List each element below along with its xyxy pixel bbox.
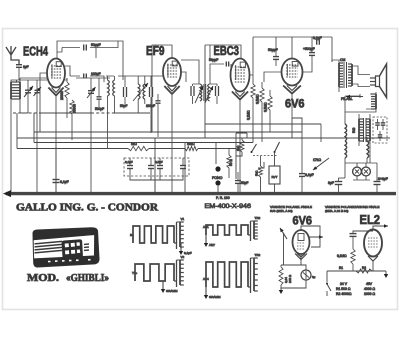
switch S1a: [251, 144, 257, 153]
wire 1kohm bus link: [205, 118, 321, 168]
coil diagram bottom-left: [132, 255, 185, 293]
capacitor 50pF osc grid: [84, 43, 101, 51]
coil diagram bottom-right: [203, 253, 260, 299]
speaker field coil: [345, 92, 376, 112]
wire ECH4 cathode down: [40, 73, 56, 193]
svg-text:100pF: 100pF: [91, 72, 101, 76]
wire EL2 top: [353, 226, 384, 233]
output transformer T3 primary: [332, 60, 343, 92]
resistor 0.5Mohm AF: [264, 90, 273, 132]
tube EF9: [163, 58, 181, 94]
svg-text:24 V: 24 V: [340, 282, 348, 286]
tube EL2 variant: [364, 230, 382, 262]
svg-text:8μF: 8μF: [328, 181, 334, 185]
svg-text:ANT: ANT: [209, 243, 215, 247]
svg-text:+500μF: +500μF: [303, 47, 315, 51]
capacitor 100pF: [70, 72, 104, 82]
svg-text:TR2: TR2: [255, 253, 261, 257]
capacitor EF9 cathode: [156, 94, 161, 137]
IF coil tuned: [133, 76, 148, 113]
resistor diode load vertical: [251, 75, 255, 124]
IF transformer T2: [191, 84, 219, 104]
svg-text:0,5μF: 0,5μF: [155, 160, 163, 164]
svg-text:V2: V2: [181, 255, 185, 259]
wire IF1 to EF9: [118, 45, 172, 76]
radio cabinet MOD GHIBLI: [33, 228, 99, 267]
filter choke lower: [345, 141, 347, 178]
wire EF9 down: [172, 72, 186, 193]
capacitor antenna series: [16, 65, 29, 80]
capacitor 8+8uF filter: [374, 163, 388, 193]
svg-text:0,1μF: 0,1μF: [60, 180, 69, 184]
svg-text:TR2: TR2: [255, 216, 261, 220]
svg-text:540: 540: [352, 127, 356, 133]
switch S1b gang dashed: [253, 155, 277, 157]
wire 6V6 variant bottom: [281, 254, 306, 288]
svg-text:EBC3: EBC3: [214, 44, 240, 58]
mains selector dashed box: [373, 117, 387, 143]
resistor 5kohm: [255, 156, 263, 193]
svg-text:GRAMM: GRAMM: [209, 295, 221, 299]
wire EL2 mid: [327, 261, 386, 274]
wire T2 to EBC3: [181, 45, 241, 84]
dashed box filter caps: [124, 158, 189, 176]
resistor 0.5Mohm grid: [256, 82, 265, 142]
power transformer core: [363, 118, 365, 142]
filter choke right: [367, 137, 369, 163]
capacitor 50pF interstage: [120, 76, 127, 108]
svg-text:45V: 45V: [366, 282, 373, 286]
wire bus horizontals: [20, 112, 150, 114]
svg-text:6V6: 6V6: [285, 97, 305, 111]
label FILAM: [341, 95, 363, 101]
CAV adjuster 17kohm: [313, 158, 329, 170]
tube EBC3: [231, 59, 250, 100]
coil diagram top-right: [203, 216, 260, 247]
resistor 50kohm: [70, 100, 77, 140]
svg-text:17kΩ: 17kΩ: [313, 158, 321, 162]
svg-text:5kΩ: 5kΩ: [255, 170, 259, 176]
switch S1b: [274, 142, 280, 166]
svg-text:0,5MΩ: 0,5MΩ: [256, 94, 260, 104]
svg-text:100pF: 100pF: [146, 104, 155, 108]
svg-text:50 Ω: 50 Ω: [229, 159, 233, 166]
capacitor 8uF filter: [328, 178, 345, 193]
svg-text:6V6: 6V6: [293, 214, 313, 228]
trimmer capacitor CV2: [34, 84, 42, 193]
capacitor 0,1uF AVC left: [53, 146, 69, 193]
svg-text:EM-400-X-946: EM-400-X-946: [205, 203, 252, 210]
svg-text:V1: V1: [181, 217, 185, 221]
svg-text:4000 Ω: 4000 Ω: [364, 287, 375, 291]
svg-text:50pF: 50pF: [120, 104, 127, 108]
power transformer primary: [359, 114, 363, 146]
wire B+ top: [253, 37, 332, 62]
resistor 50ohm: [227, 149, 233, 179]
capacitor block 0,1uF x4: [125, 160, 133, 176]
speaker: [370, 64, 387, 98]
table EL2 values: [336, 282, 375, 296]
resistor cathode 6V6 variant: [279, 265, 292, 285]
svg-text:RVT: RVT: [272, 175, 278, 179]
capacitor 0,1uF top right: [313, 36, 322, 45]
wire verticals to buses: [17, 45, 216, 193]
svg-text:FILAM.: FILAM.: [341, 97, 353, 101]
svg-text:6μ: 6μ: [312, 275, 316, 279]
svg-text:1kΩ: 1kΩ: [131, 142, 137, 146]
svg-text:6V6 (SER. A 04): 6V6 (SER. A 04): [270, 209, 293, 213]
wire top bus B+ left loop: [57, 41, 123, 80]
svg-text:ECH4: ECH4: [23, 45, 48, 59]
arrow input 6V6 variant: [280, 228, 287, 265]
component box RVT: [269, 166, 280, 193]
note variante polariz finale 6V6: [270, 205, 312, 213]
capacitor 100pF interstage: [146, 76, 155, 133]
output transformer T3 core: [343, 62, 345, 88]
resistor 1kohm tone network: [236, 133, 247, 179]
svg-text:EL2: EL2: [360, 212, 381, 227]
wire grid to ECH4: [11, 78, 47, 84]
potentiometer FONO: [212, 166, 223, 193]
svg-text:50μμF: 50μμF: [209, 58, 218, 62]
wire right section verticals: [302, 60, 345, 170]
tube 6V6 output: [282, 59, 303, 94]
svg-text:GRAMM: GRAMM: [166, 289, 178, 293]
capacitor EBC3 grid: [226, 62, 228, 67]
svg-text:1000 Ω: 1000 Ω: [364, 292, 375, 296]
svg-text:500pF: 500pF: [95, 107, 104, 111]
variable capacitor CV3 oscillator: [87, 84, 96, 192]
svg-text:50μμF: 50μμF: [91, 43, 101, 47]
power transformer secondary: [366, 114, 370, 163]
capacitor electrolytic 25uF: [235, 172, 248, 193]
resistor 0,1Mohm EL2: [337, 249, 355, 271]
switch EL2: [326, 271, 331, 296]
tube 6V6 variant: [293, 230, 310, 260]
svg-text:1kΩ: 1kΩ: [236, 145, 240, 151]
trimmer capacitor CV1: [24, 84, 33, 113]
capacitor 0,1uF AF right: [299, 170, 314, 193]
ground arrow 6V6 variant: [279, 288, 283, 294]
svg-text:0,1μF: 0,1μF: [184, 251, 192, 255]
svg-text:10kΩ: 10kΩ: [187, 142, 195, 146]
svg-text:R1 500 Ω: R1 500 Ω: [336, 287, 351, 291]
svg-text:CM: CM: [340, 58, 345, 62]
svg-text:1μF: 1μF: [23, 65, 29, 69]
oscillator coil L2: [108, 76, 115, 149]
svg-text:0,2MΩ: 0,2MΩ: [247, 110, 251, 120]
wire 6V6 connections: [264, 64, 312, 118]
dashed gang line: [13, 112, 150, 114]
tube ECH4: [47, 59, 65, 96]
svg-text:MOD.: MOD.: [27, 272, 59, 284]
svg-text:FONO: FONO: [212, 176, 223, 180]
resistor 20kohm screen vertical text: [60, 78, 69, 118]
capacitor 0,1uF top: [303, 47, 315, 64]
svg-text:240 Ω: 240 Ω: [288, 274, 292, 283]
svg-text:50000: 50000: [73, 104, 77, 113]
svg-text:0,1μF: 0,1μF: [305, 173, 314, 177]
ground arrow EL2: [384, 274, 388, 278]
arrow output 6V6 variant: [301, 226, 323, 247]
svg-text:(SER. A 24 E 34): (SER. A 24 E 34): [325, 209, 348, 213]
svg-text:R2 4000Ω: R2 4000Ω: [336, 292, 352, 296]
wire oscillator top: [65, 66, 114, 88]
svg-text:50μF: 50μF: [241, 181, 248, 185]
rectifier circles: [345, 163, 377, 180]
svg-text:0,5MΩ: 0,5MΩ: [264, 102, 268, 112]
note variante polarizzazione finale EL2: [325, 205, 379, 213]
coil diagram top-left: [130, 217, 192, 255]
wire EBC3 down: [240, 37, 253, 193]
resistor 1kohm decoupling B: [185, 142, 198, 151]
svg-text:20000: 20000: [60, 91, 64, 100]
svg-text:0,1μF: 0,1μF: [125, 160, 133, 164]
antenna: [6, 46, 19, 64]
resistor 1kohm decoupling A: [128, 142, 149, 151]
svg-text:0,1MΩ: 0,1MΩ: [337, 254, 347, 258]
capacitor padder 500pF: [95, 88, 104, 111]
svg-text:«GHIBLI»: «GHIBLI»: [66, 272, 109, 284]
svg-text:0,1μF: 0,1μF: [313, 36, 322, 40]
resistor R2 EL2: [356, 269, 372, 273]
capacitor electrolytic 6V6 variant: [301, 270, 316, 280]
svg-text:P. R. 190: P. R. 190: [216, 196, 230, 200]
ground bus: [3, 190, 396, 197]
capacitor EL2 grid: [350, 234, 357, 249]
antenna coil L1: [11, 78, 20, 193]
capacitor 50uF cathode 6V6: [268, 48, 279, 66]
svg-text:GALLO ING. G. - CONDOR: GALLO ING. G. - CONDOR: [16, 202, 159, 214]
svg-text:EF9: EF9: [146, 44, 165, 58]
svg-text:R1: R1: [339, 266, 343, 270]
output transformer T3 secondary: [348, 64, 370, 87]
svg-text:8+8μF: 8+8μF: [378, 177, 388, 181]
filter choke upper: [345, 118, 347, 141]
